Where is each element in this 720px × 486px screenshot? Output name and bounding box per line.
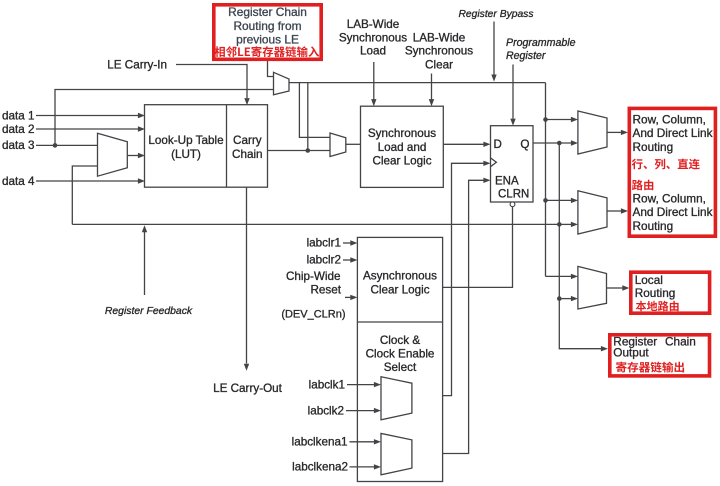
svg-text:data 1: data 1 bbox=[2, 109, 35, 122]
label LAB-Wide Synchronous Clear bbox=[405, 32, 473, 72]
svg-text:Register Feedback: Register Feedback bbox=[105, 306, 193, 317]
svg-text:labclr2: labclr2 bbox=[307, 254, 341, 267]
label Row Column And Direct Link Routing (bottom) bbox=[633, 192, 713, 233]
label Synchronous Load and Clear Logic bbox=[368, 127, 436, 167]
svg-text:Synchronous: Synchronous bbox=[368, 127, 436, 140]
wire LAB-Wide Synchronous Load arrow bbox=[371, 62, 376, 106]
wire LUT output to sync mux bbox=[268, 148, 331, 153]
red callout box: Register Chain Routing from previous LE bbox=[214, 5, 321, 60]
label Asynchronous Clear Logic bbox=[363, 270, 437, 297]
svg-text:(LUT): (LUT) bbox=[171, 148, 201, 161]
svg-text:Clear: Clear bbox=[425, 58, 453, 71]
svg-text:Register Bypass: Register Bypass bbox=[459, 9, 534, 20]
svg-text:labclk1: labclk1 bbox=[309, 378, 345, 391]
wire register feedback pointer bbox=[142, 225, 147, 295]
wire drop to sync mux top input bbox=[299, 83, 330, 138]
svg-text:(DEV_CLRn): (DEV_CLRn) bbox=[281, 308, 345, 320]
svg-text:Clear Logic: Clear Logic bbox=[372, 154, 431, 167]
svg-text:Reset: Reset bbox=[310, 284, 341, 297]
label LAB-Wide Synchronous Load bbox=[339, 18, 407, 58]
wire register chain input from red box to mux M1 bbox=[268, 61, 274, 77]
wire M4 output bbox=[607, 130, 628, 135]
wire mux M5 top input bbox=[546, 198, 579, 203]
svg-text:data 3: data 3 bbox=[2, 139, 35, 152]
label CJK 行、列、直连 bbox=[632, 159, 700, 170]
svg-text:Local: Local bbox=[635, 273, 663, 287]
mux M1 register chain mux bbox=[274, 72, 290, 95]
svg-text:Routing: Routing bbox=[635, 286, 676, 300]
svg-text:Asynchronous: Asynchronous bbox=[363, 270, 437, 283]
wire labclkena1 bbox=[350, 439, 382, 444]
red callout box: Row Column Direct Link Routing bbox=[629, 108, 715, 236]
mux M3 sync input mux bbox=[330, 133, 346, 157]
wire clock path from clock mux bbox=[412, 161, 491, 396]
svg-text:Output: Output bbox=[613, 345, 649, 359]
svg-text:ENA: ENA bbox=[495, 175, 519, 187]
svg-text:D: D bbox=[494, 139, 502, 151]
label Chip-Wide Reset (DEV_CLRn) bbox=[281, 270, 345, 321]
wire CLRN to Asynchronous Clear Logic bbox=[443, 207, 513, 288]
svg-text:LAB-Wide: LAB-Wide bbox=[413, 32, 466, 45]
svg-text:Chain: Chain bbox=[665, 335, 696, 349]
svg-text:Clock Enable: Clock Enable bbox=[366, 348, 435, 361]
svg-text:Carry: Carry bbox=[233, 134, 262, 147]
wire LE Carry-In bbox=[176, 65, 250, 106]
wire data 2 bbox=[36, 126, 145, 131]
wire local mux top input bbox=[546, 274, 579, 279]
svg-text:And Direct Link: And Direct Link bbox=[633, 126, 713, 140]
wire labclr2 bbox=[343, 257, 357, 262]
wire data 3 bbox=[36, 143, 98, 148]
label Local Routing bbox=[635, 273, 676, 300]
flip-flop U1 programmable register bbox=[491, 126, 534, 202]
wire Chip-Wide Reset bbox=[345, 295, 357, 300]
svg-text:Row, Column,: Row, Column, bbox=[633, 112, 706, 126]
svg-text:Load and: Load and bbox=[378, 141, 427, 154]
svg-text:Chain: Chain bbox=[232, 148, 263, 161]
label CJK 相邻LE寄存器链输入 bbox=[214, 46, 319, 57]
wire Q output bbox=[533, 140, 578, 145]
wire mux M4 top input bbox=[546, 117, 579, 122]
wire M6 output bbox=[607, 285, 630, 290]
wire Register Bypass arrow bbox=[491, 22, 496, 82]
svg-text:labclr1: labclr1 bbox=[307, 237, 341, 250]
wire mux M2 output bbox=[127, 153, 145, 158]
label Carry Chain bbox=[232, 134, 263, 161]
box Asynchronous Clear Logic / Clock Enable Select bbox=[357, 237, 442, 481]
svg-text:Register: Register bbox=[506, 50, 546, 62]
svg-text:data 4: data 4 bbox=[2, 175, 35, 188]
svg-text:Chip-Wide: Chip-Wide bbox=[286, 270, 341, 283]
svg-text:labclk2: labclk2 bbox=[308, 404, 344, 417]
wire register bypass vertical bbox=[543, 83, 548, 277]
wire Q vertical to register chain output bbox=[557, 143, 608, 351]
svg-text:LE Carry-In: LE Carry-In bbox=[107, 58, 167, 71]
wire M5 output bbox=[607, 208, 628, 213]
wire local mux bottom input bbox=[559, 296, 578, 301]
red callout box: Register Chain Output bbox=[610, 335, 710, 376]
wire D input bbox=[443, 142, 490, 147]
CLRN bubble bbox=[510, 202, 515, 207]
svg-text:labclkena1: labclkena1 bbox=[292, 436, 348, 449]
mux M8 clock enable select mux bbox=[381, 433, 412, 474]
label Clock and Clock Enable Select bbox=[366, 334, 435, 374]
svg-text:Look-Up Table: Look-Up Table bbox=[148, 134, 223, 147]
mux M6 local routing mux bbox=[578, 266, 607, 309]
clock triangle pin bbox=[491, 158, 497, 167]
label Look-Up Table (LUT) bbox=[148, 134, 223, 161]
svg-text:Q: Q bbox=[520, 138, 529, 151]
label Register Chain Output bbox=[613, 335, 696, 360]
wire labclr1 bbox=[343, 240, 357, 245]
wire LAB-Wide Synchronous Clear arrow bbox=[429, 74, 434, 107]
wire data 3 branch to register-chain mux bbox=[55, 90, 274, 146]
wire Programmable Register arrow bbox=[510, 65, 515, 126]
svg-text:CLRN: CLRN bbox=[498, 189, 529, 201]
label Row Column And Direct Link Routing (top) bbox=[633, 112, 713, 154]
label CJK 本地路由 bbox=[636, 301, 679, 311]
wire M1 output / register bypass rail bbox=[289, 82, 546, 84]
svg-text:Row, Column,: Row, Column, bbox=[633, 192, 706, 206]
mux M4 row/column routing mux bbox=[578, 111, 607, 154]
svg-text:Load: Load bbox=[360, 45, 386, 58]
label Programmable Register bbox=[506, 37, 576, 62]
wire data 1 bbox=[36, 113, 145, 118]
svg-text:Select: Select bbox=[384, 361, 417, 374]
wire register feedback horizontal bbox=[72, 222, 578, 227]
svg-text:Clock &: Clock & bbox=[380, 334, 420, 347]
label CJK 寄存器链输出 bbox=[616, 362, 684, 373]
wire labclk1 bbox=[347, 382, 381, 387]
svg-text:Routing: Routing bbox=[633, 140, 674, 154]
svg-text:And Direct Link: And Direct Link bbox=[633, 205, 713, 219]
label Register Chain Routing from previous LE bbox=[228, 5, 307, 46]
label CJK 路由 bbox=[632, 180, 653, 191]
mux M5 row/column routing mux 2 bbox=[578, 191, 607, 234]
wire labclk2 bbox=[346, 408, 381, 413]
wire clock enable path from ena mux bbox=[412, 178, 491, 454]
wire LE Carry-Out bbox=[244, 188, 249, 371]
wire drop to LUT output line bbox=[307, 83, 309, 151]
red callout box: Local Routing bbox=[631, 272, 710, 313]
svg-text:Synchronous: Synchronous bbox=[339, 32, 407, 45]
svg-text:Clear Logic: Clear Logic bbox=[370, 283, 429, 296]
svg-text:Programmable: Programmable bbox=[506, 37, 576, 49]
wire M3 output to Synchronous Load box bbox=[346, 143, 361, 145]
mux M2 data3/feedback input mux bbox=[98, 133, 128, 176]
svg-text:data 2: data 2 bbox=[2, 123, 35, 136]
box LUT / Carry Chain bbox=[145, 105, 268, 188]
svg-text:previous LE: previous LE bbox=[236, 32, 299, 46]
svg-text:Routing: Routing bbox=[633, 219, 674, 233]
svg-text:Synchronous: Synchronous bbox=[405, 45, 473, 58]
svg-text:Register Chain: Register Chain bbox=[228, 5, 307, 19]
wire labclkena2 bbox=[350, 464, 382, 469]
wire data 4 bbox=[36, 178, 145, 183]
svg-text:LAB-Wide: LAB-Wide bbox=[347, 18, 400, 31]
wire register feedback to input mux bbox=[72, 166, 97, 224]
svg-text:Routing from: Routing from bbox=[233, 19, 301, 33]
mux M7 clock select mux bbox=[381, 377, 412, 420]
svg-text:LE Carry-Out: LE Carry-Out bbox=[213, 382, 283, 395]
svg-text:labclkena2: labclkena2 bbox=[292, 461, 348, 474]
box Synchronous Load and Clear Logic bbox=[361, 106, 444, 187]
